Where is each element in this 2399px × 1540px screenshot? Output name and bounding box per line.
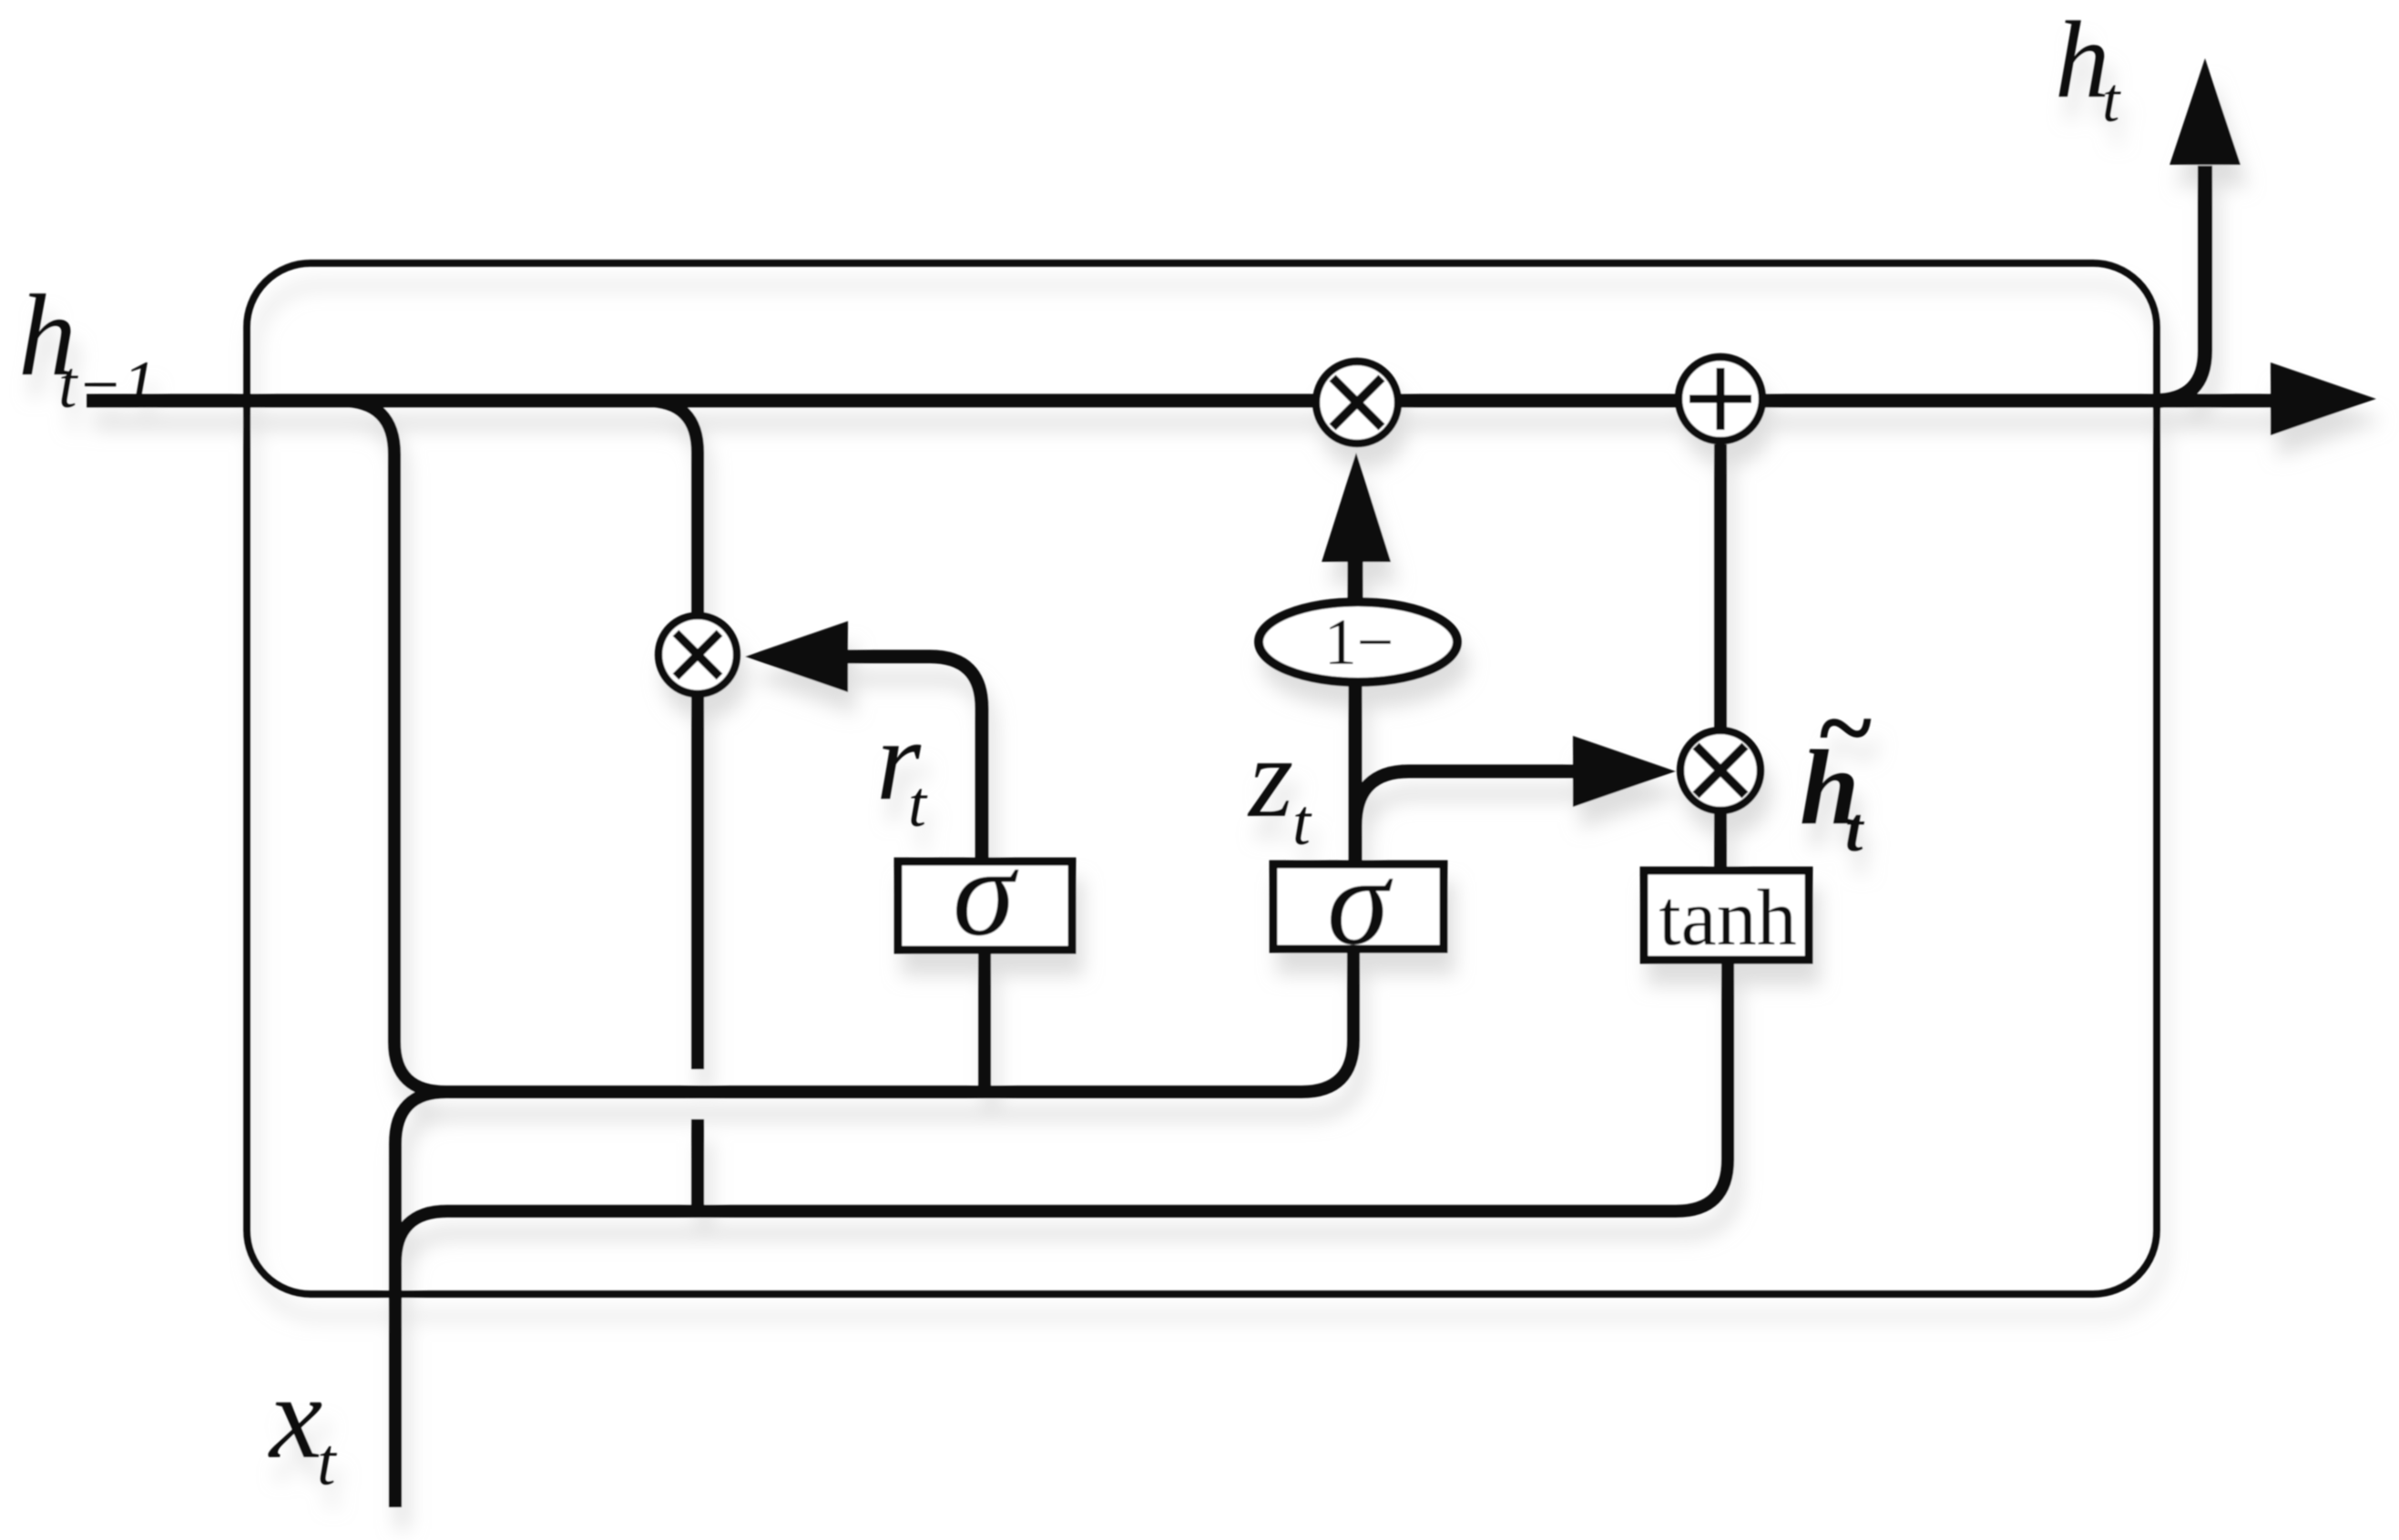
wire h(t) output branch curving up from main line xyxy=(2155,166,2205,401)
svg-text:t−1: t−1 xyxy=(58,348,157,423)
svg-text:x: x xyxy=(268,1351,322,1484)
arrowhead (1-z) up into update multiply xyxy=(1322,453,1391,562)
wire r(t): sigma-r output curving left into reset multiply xyxy=(846,657,982,865)
GRU cell boundary (rounded rectangle) xyxy=(247,263,2157,1294)
wire (1-z) from ellipse up into update multiply xyxy=(1348,557,1363,608)
svg-text:σ: σ xyxy=(953,822,1019,962)
svg-text:tanh: tanh xyxy=(1659,874,1797,963)
add node (on main line) circle-plus xyxy=(1679,357,1762,441)
multiply node (reset) circle-times xyxy=(658,616,737,694)
sigma box (reset gate) xyxy=(898,862,1072,950)
wire h(t-1) main horizontal line xyxy=(87,394,2277,408)
arrowhead h(t-1) line output right xyxy=(2271,362,2376,435)
svg-text:z: z xyxy=(1247,715,1293,841)
arrowhead z(t) into candidate multiply xyxy=(1573,736,1676,807)
wire gate feed line (concat line to sigma gates) xyxy=(441,953,1353,1092)
svg-text:t: t xyxy=(908,768,928,841)
1-minus ellipse node xyxy=(1259,602,1457,682)
wire z(t) branch right to candidate multiply xyxy=(1355,771,1577,826)
wire x(t) branch to tanh line xyxy=(395,956,1728,1263)
svg-text:σ: σ xyxy=(1327,831,1393,971)
wire sigma-r input vertical xyxy=(978,950,991,1098)
wire h(t-1) branch down (inner left vertical) xyxy=(341,401,446,1092)
wire reset output below crossover gap xyxy=(691,1119,704,1214)
svg-text:1−: 1− xyxy=(1324,606,1394,678)
svg-text:t: t xyxy=(1845,795,1865,865)
arrowhead h(t) up xyxy=(2169,58,2241,165)
multiply node (update, on main line) circle-times xyxy=(1316,362,1398,444)
tanh box (candidate activation) xyxy=(1644,871,1809,960)
multiply node (candidate) circle-times xyxy=(1680,730,1761,811)
svg-text:t: t xyxy=(1292,786,1312,859)
wire z(t): sigma-z output up to 1-minus ellipse xyxy=(1349,678,1363,868)
wire x(t) input vertical xyxy=(395,1092,446,1507)
svg-text:~: ~ xyxy=(1816,672,1873,783)
svg-text:t: t xyxy=(317,1425,338,1500)
wire candidate multiply down to tanh xyxy=(1714,813,1727,874)
arrowhead r(t) into reset multiply xyxy=(745,621,848,692)
wire reset branch down from main line xyxy=(646,401,698,1069)
svg-text:t: t xyxy=(2102,66,2121,136)
sigma box (update gate) xyxy=(1273,864,1444,949)
wire candidate column: add node down to candidate multiply xyxy=(1714,444,1727,729)
